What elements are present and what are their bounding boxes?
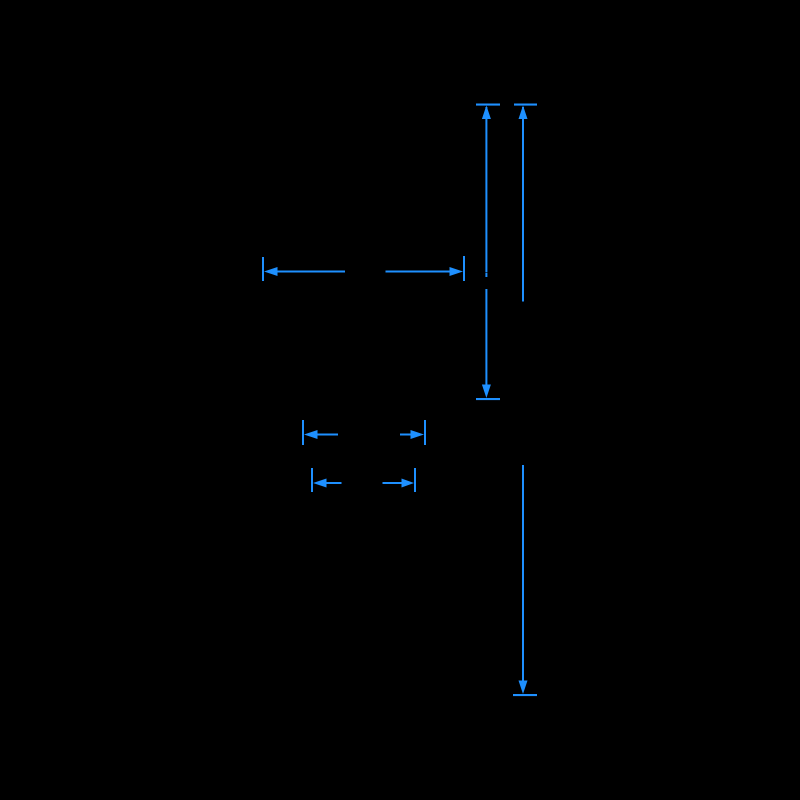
arrow down H1 xyxy=(482,385,491,399)
small dim D2 left tick xyxy=(311,468,313,492)
D2 dim line right segment xyxy=(383,482,402,484)
extension tick top of height dim H1 xyxy=(476,104,500,106)
arrow right W1 xyxy=(450,267,464,276)
arrow up H1 xyxy=(482,106,491,120)
H1 dim line stub below label xyxy=(485,273,487,277)
D1 dim line right segment xyxy=(400,434,411,436)
H1 dim line upper segment xyxy=(485,107,487,272)
D1 dim line left segment xyxy=(317,434,338,436)
arrow left D1 xyxy=(304,430,318,439)
H2 dim line upper segment xyxy=(522,107,524,302)
H2 dim line lower segment xyxy=(522,465,524,682)
W1 dim line right segment xyxy=(386,271,450,273)
small dim D2 right tick xyxy=(414,468,416,492)
arrow down H2 xyxy=(519,681,528,695)
extension tick bottom of H1 xyxy=(476,398,500,400)
H1 dim line lower segment xyxy=(485,289,487,386)
width dim W1 right tick xyxy=(463,256,465,281)
small dim D1 right tick xyxy=(424,420,426,445)
arrow right D2 xyxy=(402,479,415,488)
small dim D1 left tick xyxy=(302,420,304,445)
D2 dim line left segment xyxy=(326,482,342,484)
door slab (black product silhouette) xyxy=(262,102,537,696)
arrow right D1 xyxy=(411,430,425,439)
arrow left D2 xyxy=(313,479,327,488)
arrow left W1 xyxy=(264,267,278,276)
arrow up H2 xyxy=(519,106,528,120)
width dim W1 left tick xyxy=(262,257,264,281)
W1 dim line left segment xyxy=(277,271,345,273)
extension tick top of height dim H2 xyxy=(514,104,537,106)
extension tick bottom of H2 xyxy=(513,694,537,696)
